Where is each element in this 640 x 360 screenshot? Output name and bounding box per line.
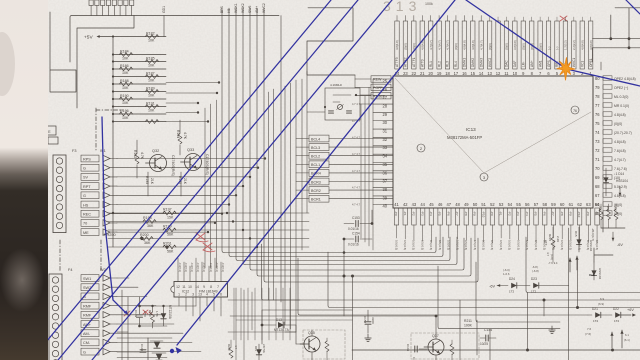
svg-text:61: 61	[569, 202, 574, 207]
svg-text:6.9: 6.9	[600, 297, 605, 301]
svg-text:2.2K: 2.2K	[556, 236, 560, 242]
transistor Q32 C1740S	[150, 155, 167, 172]
svg-text:44: 44	[420, 202, 425, 207]
wire W2 pin rows	[117, 277, 129, 279]
svg-text:-P0: -P0	[586, 211, 590, 216]
svg-text:-0.3(0.3): -0.3(0.3)	[221, 262, 225, 272]
junction dots mid rows	[140, 237, 143, 240]
svg-text:100K: 100K	[464, 324, 473, 328]
svg-text:BCR2: BCR2	[311, 189, 321, 193]
svg-text:-P0: -P0	[490, 211, 494, 216]
svg-text:38: 38	[382, 187, 387, 192]
svg-text:OPE2 (~): OPE2 (~)	[614, 86, 628, 90]
svg-text:0.5(-0.5): 0.5(-0.5)	[482, 240, 486, 250]
svg-text:SW6: SW6	[248, 6, 252, 13]
connector F4 header	[49, 274, 62, 360]
resistor R202 4.7 labels	[229, 348, 233, 359]
svg-text:(0)(0): (0)(0)	[505, 43, 509, 50]
wire bottom long rail	[352, 349, 640, 351]
svg-text:59: 59	[551, 202, 556, 207]
wire IC12 top pin risers	[177, 258, 179, 282]
svg-text:5.0(-2.9): 5.0(-2.9)	[614, 185, 627, 189]
svg-text:C1740S(R/S): C1740S(R/S)	[171, 155, 175, 176]
svg-text:0.5(-0.5): 0.5(-0.5)	[394, 240, 398, 250]
svg-text:10K: 10K	[122, 101, 129, 105]
svg-text:3: 3	[192, 293, 194, 297]
svg-text:60: 60	[560, 202, 565, 207]
wire signal rows to BCL boxes	[108, 212, 309, 214]
net boxes BCL4-BCR1	[309, 135, 329, 142]
svg-text:BCL4: BCL4	[311, 137, 320, 141]
svg-text:(6.9): (6.9)	[598, 302, 604, 306]
svg-text:40: 40	[382, 204, 387, 209]
node circle 76	[571, 106, 579, 114]
svg-text:56K: 56K	[167, 249, 174, 253]
svg-text:-P0: -P0	[394, 211, 398, 216]
svg-text:1T2: 1T2	[509, 290, 515, 294]
svg-text:4.7: 4.7	[234, 345, 238, 349]
svg-text:13: 13	[487, 71, 492, 76]
svg-text:DMH3: DMH3	[479, 58, 483, 67]
svg-text:-0.3(0.3): -0.3(0.3)	[202, 262, 206, 272]
svg-text:AM+: AM+	[530, 60, 534, 67]
dash-dot separators	[59, 240, 61, 272]
svg-text:WSK2: WSK2	[241, 3, 245, 13]
svg-text:MTZJ4.7A: MTZJ4.7A	[274, 328, 290, 332]
svg-text:(0)(0): (0)(0)	[522, 43, 526, 50]
svg-text:WSK1: WSK1	[234, 3, 238, 13]
svg-text:12: 12	[176, 285, 180, 289]
wire horizontal joins right of IC12	[228, 299, 300, 301]
svg-text:R185: R185	[146, 56, 155, 60]
wire vertical feeders left of IC13	[306, 71, 308, 213]
svg-text:-P9: -P9	[473, 211, 477, 216]
svg-text:-P3: -P3	[516, 211, 520, 216]
svg-text:-0.3(0.3): -0.3(0.3)	[209, 262, 213, 272]
svg-text:R201: R201	[163, 242, 172, 246]
svg-text:(~): (~)	[547, 46, 551, 50]
svg-text:H5: H5	[227, 9, 231, 13]
svg-text:R186: R186	[120, 64, 129, 68]
svg-text:1.2(3.2): 1.2(3.2)	[564, 40, 568, 50]
svg-text:-P7: -P7	[455, 211, 459, 216]
svg-text:4.7 4.7: 4.7 4.7	[352, 186, 360, 190]
video photo strip left	[0, 0, 48, 360]
svg-text:7.6: 7.6	[587, 327, 592, 331]
svg-text:0.5(-0.5): 0.5(-0.5)	[420, 240, 424, 250]
wire verticals lower right	[568, 228, 570, 360]
svg-text:(0)(0): (0)(0)	[538, 43, 542, 50]
svg-text:1T2: 1T2	[531, 290, 537, 294]
svg-text:D24: D24	[509, 277, 515, 281]
svg-text:4.8(4.8): 4.8(4.8)	[395, 40, 399, 50]
svg-text:72: 72	[595, 148, 600, 153]
red pencil crosses	[124, 16, 567, 316]
svg-text:(0)(0): (0)(0)	[488, 43, 492, 50]
svg-text:D21: D21	[592, 307, 598, 311]
resistor emitter Q35	[325, 341, 329, 352]
svg-text:Q32: Q32	[152, 149, 159, 153]
highlight blue trace T to star	[177, 0, 455, 345]
svg-text:0.5(-0.5): 0.5(-0.5)	[516, 240, 520, 250]
svg-text:53: 53	[499, 202, 504, 207]
svg-text:48: 48	[455, 202, 460, 207]
svg-text:HS: HS	[83, 203, 89, 207]
svg-text:Q35: Q35	[308, 331, 315, 335]
svg-text:-P9: -P9	[569, 211, 573, 216]
svg-text:C149: C149	[134, 310, 138, 318]
resistor R215 2.2K	[551, 238, 555, 249]
photo blob top dark	[0, 32, 15, 96]
wire +6V feed row	[588, 314, 592, 316]
svg-text:74: 74	[595, 130, 600, 135]
up arrows voltages mid	[568, 258, 571, 262]
wire verticals bottom centre-left extras	[235, 288, 237, 360]
svg-text:4.8(4.8): 4.8(4.8)	[463, 40, 467, 50]
svg-text:D22: D22	[613, 307, 619, 311]
svg-text:-0.3(0.3): -0.3(0.3)	[178, 262, 182, 272]
svg-text:10K: 10K	[148, 79, 155, 83]
diode D22 1T2	[615, 312, 621, 318]
svg-text:46: 46	[438, 202, 443, 207]
svg-text:1: 1	[178, 293, 180, 297]
svg-text:1.5K: 1.5K	[155, 311, 159, 317]
svg-text:20K: 20K	[606, 206, 610, 211]
svg-text:DMH1: DMH1	[463, 58, 467, 67]
svg-text:C140: C140	[140, 344, 144, 352]
svg-text:-P10: -P10	[577, 211, 581, 218]
svg-text:0.5(-0.5): 0.5(-0.5)	[464, 240, 468, 250]
connector pin-label boxes top-left	[89, 0, 93, 6]
svg-text:SW1: SW1	[83, 277, 91, 281]
wire top-right step wires	[615, 7, 640, 9]
svg-text:(6.1): (6.1)	[624, 338, 630, 342]
svg-text:RESET: RESET	[373, 94, 386, 98]
svg-text:43: 43	[412, 202, 417, 207]
svg-text:GPS: GPS	[547, 60, 551, 67]
diodes lower-left pair	[147, 338, 149, 360]
svg-text:58: 58	[542, 202, 547, 207]
node circle 2	[417, 144, 425, 152]
svg-text:RL2: RL2	[437, 61, 441, 67]
resistor R192 4.7K	[135, 154, 139, 165]
svg-text:20K: 20K	[599, 206, 603, 211]
svg-text:2.2(2.2): 2.2(2.2)	[572, 40, 576, 50]
svg-text:42: 42	[403, 202, 408, 207]
svg-text:(20.7)-20.7): (20.7)-20.7)	[614, 131, 632, 135]
svg-text:4.7: 4.7	[546, 252, 550, 256]
svg-text:AM+: AM+	[255, 6, 259, 13]
svg-text:-P4: -P4	[525, 211, 529, 216]
svg-text:C153: C153	[352, 216, 360, 220]
wire bottom-left rails	[117, 337, 148, 339]
transistor Q37	[428, 339, 444, 355]
wire left pin verticals	[372, 79, 374, 250]
svg-text:-0.3(0.3): -0.3(0.3)	[190, 262, 194, 272]
svg-text:10K: 10K	[122, 116, 129, 120]
svg-text:1/50: 1/50	[143, 311, 147, 317]
svg-text:RMF: RMF	[83, 304, 92, 308]
svg-text:-7.6 9.4: -7.6 9.4	[548, 261, 558, 265]
svg-text:SV: SV	[83, 176, 89, 180]
svg-text:D23: D23	[531, 277, 537, 281]
svg-text:49: 49	[464, 202, 469, 207]
svg-text:(-6.8): (-6.8)	[532, 269, 539, 273]
svg-text:28: 28	[382, 103, 387, 108]
svg-text:19: 19	[437, 71, 442, 76]
svg-text:R194: R194	[176, 130, 180, 138]
svg-text:-P7: -P7	[551, 211, 555, 216]
wire under-IC12 rails	[140, 305, 197, 307]
svg-text:R187: R187	[146, 71, 155, 75]
diode D24 1T2	[511, 283, 517, 289]
capacitor C152 3300	[365, 321, 371, 323]
svg-text:17: 17	[454, 71, 459, 76]
svg-text:55: 55	[516, 202, 521, 207]
svg-text:WVC2: WVC2	[488, 58, 492, 67]
svg-text:21K: 21K	[150, 178, 154, 185]
wire IC12 to comb verticals	[233, 288, 235, 340]
wire W1 pin rows	[116, 158, 118, 160]
svg-text:0.01/16: 0.01/16	[348, 243, 359, 247]
svg-text:41: 41	[394, 202, 399, 207]
svg-text:ATT0: ATT0	[420, 59, 424, 67]
svg-text:GD1: GD1	[162, 6, 166, 13]
svg-text:0.5(-0.5): 0.5(-0.5)	[508, 240, 512, 250]
svg-text:-P1: -P1	[499, 211, 503, 216]
diode D zener MTZJ10A	[163, 306, 165, 326]
svg-text:Q37: Q37	[432, 334, 439, 338]
svg-text:F3: F3	[72, 149, 76, 153]
svg-text:R188: R188	[120, 79, 129, 83]
svg-text:4.7 4.7: 4.7 4.7	[352, 102, 360, 106]
diode D11 MTZJ7.5A	[258, 344, 260, 360]
svg-text:-P1: -P1	[403, 211, 407, 216]
svg-text:4.7(4.7): 4.7(4.7)	[479, 40, 483, 50]
svg-text:14: 14	[479, 71, 484, 76]
svg-text:10: 10	[513, 71, 518, 76]
svg-text:R182: R182	[146, 31, 155, 35]
svg-text:BPS: BPS	[220, 5, 224, 13]
svg-text:23: 23	[403, 71, 408, 76]
wire right lower path	[594, 213, 625, 262]
highlight blue corner segment	[626, 0, 640, 14]
svg-text:BCL1: BCL1	[311, 163, 320, 167]
svg-text:DAF: DAF	[513, 61, 517, 67]
svg-text:-0.3(0.3): -0.3(0.3)	[215, 262, 219, 272]
svg-text:Q33: Q33	[187, 148, 194, 152]
svg-text:-P6: -P6	[446, 211, 450, 216]
svg-text:RMF: RMF	[83, 314, 92, 318]
svg-text:54: 54	[508, 202, 513, 207]
resistor ladder R182-R196 10K pullups	[113, 36, 166, 38]
highlight blue diagonal d2	[58, 0, 358, 360]
svg-text:HSS104: HSS104	[589, 240, 593, 252]
svg-text:32: 32	[382, 137, 387, 142]
IC13 top pins 24-1 with stub boxes	[395, 21, 399, 69]
box TE	[44, 126, 56, 135]
svg-text:ATTF3: ATTF3	[395, 57, 399, 67]
svg-text:30: 30	[382, 120, 387, 125]
svg-text:77: 77	[595, 103, 600, 108]
svg-text:51: 51	[481, 202, 486, 207]
svg-text:4.7 4.7: 4.7 4.7	[352, 169, 360, 173]
svg-text:4.8(4.8): 4.8(4.8)	[580, 40, 584, 50]
svg-text:R192: R192	[133, 150, 137, 158]
wire C153/C154 verticals	[371, 210, 373, 224]
wire D13 area	[261, 310, 263, 344]
svg-text:C1740S(R/S): C1740S(R/S)	[205, 154, 209, 175]
svg-text:7.6(-7.6): 7.6(-7.6)	[614, 167, 627, 171]
svg-text:68: 68	[595, 184, 600, 189]
wire inner L-path	[77, 16, 134, 109]
svg-text:0.5(-0.5): 0.5(-0.5)	[455, 240, 459, 250]
svg-text:-P10: -P10	[481, 211, 485, 218]
ground bottom right	[551, 326, 553, 330]
wire long rails centre-bottom	[262, 309, 353, 311]
svg-text:67: 67	[595, 193, 600, 198]
svg-text:76: 76	[595, 112, 600, 117]
svg-text:G: G	[83, 167, 86, 171]
svg-text:10K: 10K	[122, 86, 129, 90]
svg-text:4.7(4.7): 4.7(4.7)	[614, 158, 626, 162]
svg-text:47: 47	[447, 202, 452, 207]
svg-text:R197: R197	[163, 208, 172, 212]
svg-text:ATT: ATT	[544, 240, 548, 246]
svg-text:R202: R202	[227, 344, 231, 351]
crystal X1 oscillator cluster	[325, 88, 360, 120]
svg-text:ATTF1: ATTF1	[412, 57, 416, 67]
svg-text:F4: F4	[68, 268, 72, 272]
svg-text:C152: C152	[363, 316, 367, 324]
svg-text:VC1: VC1	[580, 61, 584, 67]
svg-text:4.8(4.8): 4.8(4.8)	[614, 113, 626, 117]
svg-text:34: 34	[382, 154, 387, 159]
svg-text:WVC2: WVC2	[262, 3, 266, 13]
diode D15 HSS104	[578, 227, 580, 252]
svg-text:0.5(-0.5): 0.5(-0.5)	[403, 240, 407, 250]
resistors R204-R206 20K	[599, 209, 603, 220]
svg-text:ME: ME	[83, 231, 89, 235]
svg-text:0.5(-0.5): 0.5(-0.5)	[412, 240, 416, 250]
svg-text:4.8(4.8): 4.8(4.8)	[614, 140, 626, 144]
svg-text:(0)(0): (0)(0)	[614, 122, 622, 126]
svg-text:21: 21	[420, 71, 425, 76]
wire Q35 base feed	[296, 343, 304, 345]
svg-text:MR 0.1(0): MR 0.1(0)	[614, 104, 629, 108]
photo blob light	[0, 248, 44, 312]
svg-text:+5V: +5V	[84, 35, 93, 41]
svg-text:10K: 10K	[148, 94, 155, 98]
svg-text:313: 313	[383, 0, 421, 14]
svg-text:100k: 100k	[425, 2, 433, 6]
wire +5V vertical bus	[112, 37, 114, 248]
svg-text:0.5(-0.5): 0.5(-0.5)	[490, 240, 494, 250]
svg-text:BCL3: BCL3	[311, 146, 320, 150]
wire vertical signal lines with net labels	[163, 16, 165, 37]
svg-text:R190: R190	[120, 94, 129, 98]
svg-text:63: 63	[586, 202, 591, 207]
svg-text:-P3: -P3	[420, 211, 424, 216]
svg-text:0.5(-0.5): 0.5(-0.5)	[569, 240, 573, 250]
diode D21 1T2	[595, 312, 601, 318]
resistor R194 4.7K	[178, 134, 182, 145]
svg-text:D16: D16	[589, 273, 595, 277]
svg-text:79: 79	[595, 85, 600, 90]
svg-text:75: 75	[595, 121, 600, 126]
svg-text:RL3: RL3	[446, 61, 450, 67]
transistor Q33 C1740S	[185, 154, 202, 171]
svg-text:6: 6	[220, 293, 222, 297]
wire Q37 verticals	[435, 356, 437, 360]
junction dots on bus	[343, 275, 346, 278]
diode D13 MTZJ4.7A	[262, 324, 276, 326]
svg-text:3.8(0.8): 3.8(0.8)	[513, 40, 517, 50]
svg-text:R193: R193	[145, 176, 149, 184]
connector W1 pins	[81, 155, 99, 162]
svg-text:IC12: IC12	[182, 289, 189, 293]
svg-text:WVC1: WVC1	[572, 58, 576, 67]
svg-text:70: 70	[595, 166, 600, 171]
svg-text:71: 71	[595, 157, 600, 162]
svg-text:-0.3(0.3): -0.3(0.3)	[184, 262, 188, 272]
svg-text:36K: 36K	[144, 241, 151, 245]
svg-text:4.8(4.8): 4.8(4.8)	[471, 40, 475, 50]
svg-text:45: 45	[429, 202, 434, 207]
box left outline	[50, 12, 76, 92]
svg-text:25: 25	[382, 78, 387, 83]
svg-text:39: 39	[382, 195, 387, 200]
svg-text:IC13: IC13	[466, 127, 476, 132]
wire IC12 bottom pins	[178, 297, 180, 306]
svg-text:R200: R200	[140, 233, 149, 237]
svg-text:(0)(0): (0)(0)	[404, 43, 408, 50]
svg-text:D15: D15	[574, 231, 578, 237]
svg-text:4.7(4.7): 4.7(4.7)	[429, 40, 433, 50]
svg-text:4.7 4.7: 4.7 4.7	[352, 202, 360, 206]
svg-text:(7.6): (7.6)	[585, 332, 591, 336]
svg-text:50: 50	[473, 202, 478, 207]
star marker orange	[557, 57, 576, 80]
capacitor C149 1/50	[137, 314, 143, 316]
diode D16 HSS104	[593, 262, 595, 280]
svg-text:6.1: 6.1	[625, 333, 629, 337]
svg-text:BCL2: BCL2	[311, 155, 320, 159]
svg-text:76: 76	[573, 109, 577, 113]
svg-text:52: 52	[490, 202, 495, 207]
svg-text:-6V: -6V	[489, 285, 495, 289]
svg-text:36K: 36K	[147, 224, 154, 228]
svg-text:69: 69	[595, 175, 600, 180]
svg-text:10/25: 10/25	[480, 342, 488, 346]
svg-text:16: 16	[462, 71, 467, 76]
IC U12 FIM LB1649	[174, 282, 228, 298]
svg-text:AM-: AM-	[83, 332, 91, 336]
capacitor C154 0.01/16	[344, 238, 354, 240]
svg-text:AM1: AM1	[538, 60, 542, 67]
svg-text:REC: REC	[83, 213, 91, 217]
svg-text:DAC: DAC	[505, 60, 509, 67]
svg-text:2J7.5A: 2J7.5A	[262, 344, 266, 353]
connector W2 pins	[81, 275, 99, 282]
wire top bus L-path	[70, 16, 279, 63]
svg-text:10K: 10K	[148, 39, 155, 43]
svg-text:+6V: +6V	[627, 308, 634, 312]
highlight blue diagonal d1	[31, 0, 331, 360]
svg-text:56: 56	[525, 202, 530, 207]
svg-text:-P8: -P8	[464, 211, 468, 216]
svg-text:(4.8): (4.8)	[550, 254, 554, 260]
